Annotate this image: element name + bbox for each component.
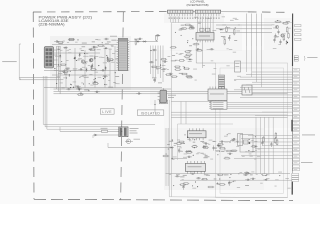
wire: bus to backlight connector 1 <box>216 24 272 26</box>
node: value label <box>180 142 184 145</box>
node: wire junction <box>194 139 195 140</box>
wire: vertical feed line 3 <box>256 14 258 47</box>
connector CN602 block <box>209 101 227 109</box>
node: value label <box>250 173 253 176</box>
connector CN601 (AC input from connector PWB) <box>44 47 53 68</box>
transistor 6Q21 <box>81 60 84 63</box>
wire: output line 8 to main connector <box>234 89 292 91</box>
capacitor 6C183 <box>245 172 250 174</box>
transformer PC601 photocoupler <box>119 127 128 137</box>
resistor 6R104 <box>184 51 191 53</box>
wire: secondary output line 13 to CN681 <box>248 151 292 153</box>
wire: vertical feed line 4 <box>261 14 263 47</box>
capacitor 6C68 <box>92 81 97 83</box>
node: value label <box>286 20 290 23</box>
wire: bus to backlight connector 2 <box>216 28 272 30</box>
resistor 6R156 <box>226 150 233 152</box>
resistor 9R22 <box>226 26 228 33</box>
wire: secondary bus 1 <box>171 111 287 113</box>
node: scan haze over dense areas <box>50 36 131 90</box>
node: vertical box component <box>238 134 243 146</box>
capacitor 6C203 <box>182 185 184 190</box>
wire: secondary output line 2 to CN681 <box>255 114 292 116</box>
diode 6D20 <box>63 47 68 49</box>
capacitor 6C8 <box>54 40 59 42</box>
diode 6D45 <box>86 67 88 72</box>
node: box component near IC603 <box>235 61 241 72</box>
wire: primary vertical rail 1 <box>56 46 58 89</box>
ic IC601 power supply control <box>117 38 130 70</box>
wire: primary top rail <box>52 44 117 46</box>
wire: circuit block outline bottom edge <box>169 196 287 199</box>
resistor 6R139 <box>176 143 183 145</box>
node: value label <box>206 174 210 177</box>
wire: vertical stub to relay box <box>154 100 156 112</box>
resistor 6R102 <box>186 54 193 56</box>
node: value label <box>115 58 118 61</box>
diode 6D40 <box>59 54 61 59</box>
resistor 9R62 <box>282 22 289 24</box>
capacitor 9C50 <box>277 29 279 34</box>
capacitor 6C87 <box>95 91 100 93</box>
capacitor 6C89 <box>78 93 83 95</box>
node: value label <box>167 143 170 146</box>
node: value label <box>214 178 217 181</box>
capacitor 6C96 <box>149 61 154 63</box>
resistor 6R191 <box>201 178 208 180</box>
node: ISOLATED region label <box>137 110 164 115</box>
wire: secondary output line 14 to CN681 <box>241 154 292 156</box>
resistor 6R210 <box>183 183 190 185</box>
connector CN691 (to inverter PWB, left half) <box>168 10 194 13</box>
diode 6D157 <box>217 145 222 147</box>
node: component value labels <box>194 17 240 32</box>
node: labels above IC602 <box>152 78 162 84</box>
node: junction on isolation line <box>121 131 122 132</box>
resistor 6R122 <box>171 76 178 78</box>
node: wire junction <box>286 43 287 44</box>
wire: secondary sense wire <box>108 147 187 158</box>
capacitor 6C208 <box>228 181 230 186</box>
node: wire junction <box>95 78 96 79</box>
wire: verticals joining buses to bottom rail <box>256 117 273 173</box>
ic IC901 inverter control <box>196 33 214 41</box>
node: wire junction <box>98 65 99 66</box>
transistor 6Q33 <box>107 59 110 62</box>
node: value label <box>89 73 92 76</box>
capacitor 6C82 <box>76 86 81 88</box>
wire: IC601 output wire <box>129 41 158 43</box>
resistor 6R22 <box>57 41 64 43</box>
node: junction dot on boundary line <box>287 42 289 44</box>
node: value label <box>174 142 177 145</box>
wire: vertical links into output lines <box>247 46 262 87</box>
node: label right of CN681 (top) <box>302 96 318 99</box>
node: wire junction <box>195 181 196 182</box>
ic IC602 regulator <box>158 88 167 103</box>
wire: primary vertical branch 7 <box>114 46 116 88</box>
node: value label <box>188 49 192 52</box>
node: wire junction <box>219 178 220 179</box>
node: wire junction <box>277 20 278 21</box>
capacitor 6C140 <box>231 138 236 140</box>
capacitor 6C196 <box>243 174 248 176</box>
diode D672 with circle <box>125 139 133 144</box>
wire: feedback rail B <box>54 90 251 92</box>
wire: output line 2 to main connector <box>246 74 292 76</box>
node: wire junction <box>194 147 195 148</box>
node: value label <box>89 55 93 58</box>
wire: left stub for barrier wires <box>60 127 93 138</box>
wire: secondary return bus vertical <box>168 100 170 197</box>
resistor 6R60 <box>62 71 69 73</box>
capacitor 6C64 <box>76 88 81 90</box>
node: solder junction dots <box>185 134 257 155</box>
wire: primary vertical rail 2 <box>57 46 59 91</box>
node: component value labels <box>155 56 171 72</box>
node: dual smoothing chokes above IC901 <box>200 28 210 31</box>
wire: output line 5 to main connector <box>252 81 292 83</box>
wire: bottom boundary dashed line <box>34 199 293 200</box>
capacitor 6C6 <box>92 46 97 48</box>
node: wire junction <box>54 68 55 69</box>
node: wire junction <box>70 87 71 88</box>
diode 6D57 <box>63 69 65 74</box>
resistor 9R17 <box>184 24 191 26</box>
wire: CN602 pin 2 bus to CN681 <box>227 103 292 105</box>
svg-text:ISOLATED: ISOLATED <box>141 111 161 115</box>
wire: vertical feed line 1 <box>246 14 248 47</box>
resistor 9R46 <box>288 32 290 39</box>
node: wire junction <box>56 83 57 84</box>
capacitor 6C98 <box>162 61 167 63</box>
resistor 6R164 <box>202 147 209 149</box>
node: LIVE/ISOLATED isolation barrier dashed line <box>121 12 124 200</box>
diode 6D47 <box>90 65 92 70</box>
capacitor 6C83 <box>76 87 81 89</box>
wire: bottom rail of secondary section <box>166 173 291 175</box>
node: value label <box>228 181 232 184</box>
node: voltage select boxes <box>294 56 298 61</box>
diode 6D161 <box>187 150 192 152</box>
capacitor 6C166 <box>213 145 215 150</box>
connector CN682 (aux block under CN681) <box>292 173 299 181</box>
resistor 6R94 <box>160 58 167 60</box>
node: wire junction <box>79 89 80 90</box>
node: D611 label <box>134 38 140 41</box>
resistor 6R16 <box>68 39 75 41</box>
capacitor 9C31 <box>196 48 201 50</box>
node: value label <box>171 59 176 62</box>
wire: primary vertical rail 3 <box>59 46 61 94</box>
wire: CN601 pin 2 lead <box>54 54 58 56</box>
node: value label <box>84 76 89 79</box>
node: value label <box>193 141 196 144</box>
node: value label <box>180 175 184 178</box>
node: wire junction <box>286 41 287 42</box>
node: value label <box>205 154 208 157</box>
wire: output line 7 to main connector <box>240 86 292 88</box>
wire: sub-circuit outline <box>178 124 234 160</box>
resistor 9R36 <box>193 43 200 45</box>
node: wire junction <box>115 72 116 73</box>
wire: branch into CN602 <box>171 102 211 125</box>
node: value label <box>181 24 185 27</box>
connector CN692 (to inverter PWB, right half) <box>195 10 221 13</box>
wire: right boundary solid line (bottom segment) <box>291 182 293 195</box>
ic IC606 secondary regulator 2 <box>185 161 205 174</box>
resistor 6R151 <box>251 146 258 148</box>
node: wire junction <box>166 153 167 154</box>
node: label (CONNECTOR PWB) at left edge <box>2 60 17 63</box>
node: value label <box>83 60 87 63</box>
node: value label <box>82 42 87 45</box>
capacitor 6C181 <box>250 178 255 180</box>
node: value label <box>82 45 86 48</box>
diode 6D39 <box>107 56 109 61</box>
node: wire junction <box>84 53 85 54</box>
wire: CN602 pin 3 bus to CN681 <box>227 105 292 107</box>
node: label right of CN681 (mid) <box>302 134 315 137</box>
resistor 6R187 <box>217 174 224 176</box>
resistor 9R34 <box>196 50 203 52</box>
node: brace and label at voltage select <box>304 56 318 61</box>
ic IC604 photocoupler <box>242 85 252 95</box>
wire: inner shield box 2 <box>220 68 284 193</box>
resistor 6R211 <box>275 132 277 139</box>
wire: secondary bus 3 <box>171 116 287 118</box>
resistor 6R204 <box>179 184 186 186</box>
wire: left verticals of secondary section <box>166 128 168 186</box>
node: solder junction dots <box>175 27 236 43</box>
node: value label <box>180 27 185 30</box>
resistor 6R138 <box>217 143 224 145</box>
capacitor 9C47 <box>274 34 276 39</box>
node: value label <box>179 72 183 75</box>
node: value label <box>82 74 87 77</box>
node: component value labels <box>173 139 261 159</box>
wire: secondary output line 1 to CN681 <box>262 111 292 113</box>
capacitor 6C17 <box>104 38 109 40</box>
node: value label <box>111 39 116 42</box>
wire: primary rail 3 <box>44 70 117 72</box>
node: value label <box>224 173 228 176</box>
node: wire junction <box>160 65 161 66</box>
resistor 6R171 <box>224 157 231 159</box>
wire: output line 9 to main connector <box>252 91 292 93</box>
wire: primary vertical branch 1 <box>65 46 67 88</box>
wire: CN602 pin 4 bus to CN681 <box>227 107 292 109</box>
node: value label <box>93 46 98 49</box>
node: wire junction <box>76 60 77 61</box>
node: value label <box>115 75 119 78</box>
wire: secondary output line 8 to CN681 <box>248 134 292 136</box>
node: component value labels <box>169 172 291 189</box>
node: value label <box>205 155 210 158</box>
node: solder junction dots <box>173 173 280 186</box>
node: value label <box>78 57 82 60</box>
resistor 9R48 <box>283 34 285 41</box>
wire: connector pin stubs descending <box>169 13 219 16</box>
capacitor 6C182 <box>190 173 195 175</box>
node: wire junction <box>184 67 185 68</box>
svg-text:(22B-N98MA): (22B-N98MA) <box>39 22 66 27</box>
node: IC901 part number label <box>199 36 210 37</box>
resistor 6R158 <box>191 146 198 148</box>
wire: output line 4 to main connector <box>234 79 292 81</box>
wire: sense line 1 (down-left corner) <box>43 76 155 124</box>
node: value label <box>84 89 89 92</box>
wire: primary vertical branch 2 <box>74 48 76 88</box>
wire: output line 1 to main connector <box>252 71 292 73</box>
resistor 6R67 <box>92 83 99 85</box>
capacitor 6C97 <box>161 68 166 70</box>
node: value label <box>175 59 178 62</box>
node: wire junction <box>69 75 70 76</box>
ic IC605 secondary regulator <box>187 128 206 140</box>
resistor 9R49 <box>286 26 288 33</box>
capacitor 6C56 <box>78 68 83 70</box>
resistor 6R177 <box>186 152 193 154</box>
node: value label <box>104 83 107 86</box>
diode 6D22 <box>74 56 76 61</box>
node: wire junction <box>58 64 59 65</box>
node: wire junction <box>77 39 78 40</box>
resistor 9R16 <box>188 27 195 29</box>
capacitor 6C163 <box>178 148 180 153</box>
node: wire junction <box>255 146 256 147</box>
relay RY601 box <box>159 100 167 103</box>
resistor 9R23 <box>224 38 226 45</box>
resistor 6R214 <box>274 137 276 144</box>
node: wire junction <box>74 58 75 59</box>
capacitor 9C13 <box>190 27 195 29</box>
resistor 6R86 <box>77 94 84 96</box>
resistor 9R25 <box>233 29 235 36</box>
wire: feedback rail C <box>54 93 288 95</box>
capacitor 6C145 <box>203 142 208 144</box>
resistor 9R51 (right of boundary) <box>295 29 302 31</box>
diode D671 arrow <box>95 134 98 137</box>
resistor 6R152 <box>219 147 226 149</box>
wire: primary vertical branch 4 <box>94 46 96 88</box>
diode 6D13 <box>104 47 109 49</box>
wire: top boundary dashed line (left part) <box>33 11 166 13</box>
wire: sense line 3 (down-left corner) <box>47 76 119 129</box>
node: wire junction <box>248 150 249 151</box>
resistor 6R74 <box>135 39 137 46</box>
node: pin number labels under connectors <box>169 17 220 19</box>
capacitor 6C142 <box>219 141 224 143</box>
resistor 6R213 <box>276 139 278 146</box>
node: solder junction dots <box>61 42 107 85</box>
wire: vertical feed line 2 <box>251 14 253 47</box>
capacitor 9C32 <box>209 48 214 50</box>
node: value label <box>221 35 225 38</box>
wire: IC901 output drop 1 <box>195 42 197 63</box>
wire: top boundary dashed line (right part) <box>248 11 290 13</box>
diode 6D117 <box>188 58 193 60</box>
wire: CN602 pin 1 bus to CN681 <box>227 102 292 104</box>
resistor 6R114 <box>175 69 182 71</box>
wire: AC line to connector (N) <box>19 79 60 81</box>
wire: primary vertical branch 6 <box>109 50 111 88</box>
wire: bus to backlight connector 3 <box>220 31 272 33</box>
diode 9D21 <box>219 29 224 31</box>
capacitor 6C125 <box>168 73 173 75</box>
resistor 9R33 <box>170 47 177 49</box>
wire: CN601 pin 3 lead <box>54 59 58 61</box>
wire: link to shield box <box>196 62 215 64</box>
node: component value labels <box>176 49 241 81</box>
node: value label <box>108 86 113 89</box>
node: wire junction <box>184 143 185 144</box>
node: wire junction <box>230 174 231 175</box>
resistor 6R153 <box>231 150 238 152</box>
wire: secondary output line 12 to CN681 <box>255 148 292 150</box>
resistor 6R91 <box>155 67 162 69</box>
node: value label <box>179 29 182 32</box>
diode 6D9 <box>88 48 93 50</box>
resistor 6R127 <box>181 73 188 75</box>
diode 6D25 <box>91 63 93 68</box>
node: wire junction <box>103 78 104 79</box>
resistor 6R174 <box>163 155 170 157</box>
wire: long pin wires into inverter drive <box>171 16 214 30</box>
capacitor 9C63 <box>273 37 275 42</box>
node: value label <box>183 174 187 177</box>
wire: primary bottom rail <box>44 87 162 89</box>
capacitor 6C65 <box>66 88 71 90</box>
diode 6D38 <box>94 55 96 60</box>
wire: circuit block outline top edge <box>171 22 292 24</box>
node: label right of CN681 (low) <box>301 161 313 164</box>
node: CN681 dark keying bar <box>291 120 293 132</box>
resistor R671 <box>101 128 108 132</box>
node: IC601 label <box>110 35 117 38</box>
node: value label <box>62 86 65 89</box>
resistor 6R133 <box>178 141 185 143</box>
resistor 9R61 <box>275 21 282 23</box>
node: wire junction <box>172 140 173 141</box>
diode 6D160 <box>169 147 174 149</box>
svg-text:(INVERTER PWB): (INVERTER PWB) <box>187 3 209 7</box>
capacitor 6C194 <box>196 177 201 179</box>
resistor 9R53 (right of boundary) <box>295 38 302 40</box>
wire: barrier crossing wire 1 <box>60 130 119 132</box>
wire: primary vertical branch 3 <box>84 50 86 88</box>
resistor 6R212 <box>263 136 265 143</box>
wire: output line 11 to main connector <box>240 97 292 99</box>
node: value label <box>245 184 249 187</box>
capacitor 9C43 <box>279 39 281 44</box>
node: value label <box>179 53 182 56</box>
wire: secondary output line 15 to CN681 <box>234 158 292 160</box>
resistor 6R121 <box>186 76 193 78</box>
capacitor 6C50 <box>100 69 105 71</box>
transistor Q952 <box>281 34 284 37</box>
wire: CN601 pin 4 lead <box>54 64 58 66</box>
wire: solid bus line under inverter connectors <box>160 11 250 13</box>
capacitor 6C195 <box>175 175 180 177</box>
capacitor 6C43 <box>65 68 70 70</box>
node: wire junction <box>168 148 169 149</box>
diode 6D48 <box>105 66 107 71</box>
resistor 6R184 <box>261 174 268 176</box>
node: junction dot at relay feed <box>154 104 155 105</box>
diode 6D32 <box>79 52 81 57</box>
resistor 6R30 <box>107 59 114 61</box>
